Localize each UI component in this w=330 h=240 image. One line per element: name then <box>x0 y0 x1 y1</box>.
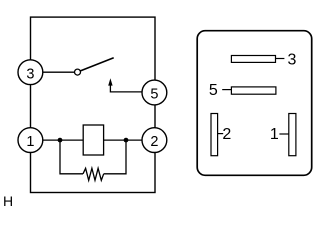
actuator arrow head <box>108 78 112 85</box>
svg-text:1: 1 <box>270 126 279 143</box>
pin 3 <box>231 52 296 69</box>
terminal 3 <box>18 60 43 85</box>
wire: resistor to right junction <box>104 140 126 174</box>
svg-text:1: 1 <box>26 134 34 150</box>
junction left <box>58 138 63 143</box>
svg-text:3: 3 <box>26 66 34 82</box>
svg-text:5: 5 <box>209 82 218 99</box>
junction right <box>124 138 129 143</box>
svg-text:2: 2 <box>222 126 231 143</box>
wire: terminal 3 to switch pivot <box>31 71 75 73</box>
svg-text:5: 5 <box>150 87 158 103</box>
wire: resistor branch loop <box>60 140 83 174</box>
relay internal circuit box <box>31 17 156 192</box>
terminal 2 <box>142 128 167 153</box>
terminal 1 <box>18 128 43 153</box>
resistor <box>83 168 104 180</box>
pin 1 <box>270 114 296 156</box>
pin 2 <box>211 114 231 156</box>
terminal 5 <box>142 80 167 105</box>
relay connector body <box>197 31 312 176</box>
svg-text:H: H <box>3 193 13 209</box>
pin 5 <box>209 82 276 99</box>
relay coil <box>83 125 103 155</box>
wire: actuator to terminal 5 <box>110 85 142 92</box>
switch blade <box>80 58 113 71</box>
svg-text:2: 2 <box>150 134 158 150</box>
switch pivot <box>75 69 81 75</box>
svg-text:3: 3 <box>288 52 297 69</box>
wire: terminal 1 to terminal 2 <box>31 139 154 141</box>
